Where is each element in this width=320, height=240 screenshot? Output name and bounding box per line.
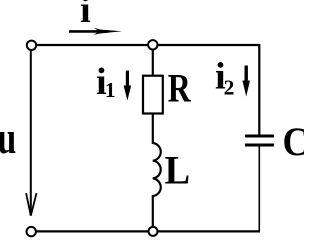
- branch current arrow i1 shaft: [126, 71, 129, 89]
- current arrow i shaft: [69, 30, 108, 33]
- svg-text:C: C: [283, 119, 305, 164]
- wire L to bottom node: [152, 195, 154, 229]
- svg-text:L: L: [165, 147, 191, 192]
- current arrow i head: [94, 28, 123, 35]
- capacitor C1 bottom plate: [245, 144, 274, 147]
- inductor L coil: [153, 143, 161, 196]
- branch current arrow i2 shaft: [244, 66, 247, 84]
- wire right rail upper: [258, 44, 260, 135]
- svg-text:R: R: [168, 65, 192, 110]
- svg-text:u: u: [0, 112, 16, 163]
- voltage arrow u head: [26, 193, 36, 216]
- branch current arrow i1 head: [124, 86, 132, 101]
- svg-text:2: 2: [224, 75, 235, 99]
- wire RL branch top: [152, 48, 154, 75]
- svg-text:1: 1: [105, 78, 116, 102]
- svg-text:i: i: [80, 0, 91, 31]
- node top-center: [148, 40, 157, 49]
- resistor R1 body: [143, 76, 163, 114]
- capacitor C1 top plate: [245, 135, 274, 138]
- branch current arrow i2 head: [242, 81, 250, 97]
- wire right rail lower: [258, 146, 260, 231]
- terminal node bottom-left: [27, 227, 36, 236]
- voltage arrow u shaft: [30, 51, 32, 216]
- wire R to L: [152, 113, 154, 144]
- wire bottom rail: [34, 230, 260, 232]
- node bottom-center: [149, 227, 158, 236]
- terminal node top-left: [27, 41, 36, 50]
- wire top rail: [34, 44, 260, 46]
